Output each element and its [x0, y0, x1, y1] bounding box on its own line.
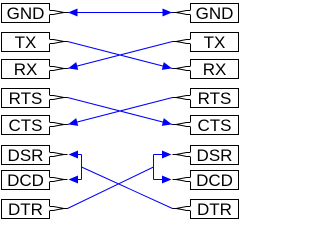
svg-text:TX: TX — [204, 33, 226, 52]
svg-text:DSR: DSR — [8, 146, 44, 165]
svg-text:RTS: RTS — [198, 89, 232, 108]
connector box L-DCD — [2, 171, 68, 190]
svg-text:TX: TX — [15, 33, 37, 52]
svg-text:GND: GND — [7, 4, 45, 23]
connector box R-GND — [173, 4, 239, 23]
svg-text:GND: GND — [196, 4, 234, 23]
connector box L-TX — [2, 33, 68, 52]
wire TX(right) to RX(left) — [68, 42, 173, 70]
connector box L-RTS — [2, 89, 68, 108]
connector box R-DTR — [173, 200, 239, 219]
connector box L-DSR — [2, 146, 68, 165]
svg-text:DCD: DCD — [7, 171, 44, 190]
svg-text:RX: RX — [14, 60, 38, 79]
wire RTS(right) to CTS(left) — [68, 98, 173, 126]
connector box L-DTR — [2, 200, 68, 219]
connector box R-DSR — [173, 146, 239, 165]
wire DTR(left) to DSR+DCD(right): bracket and arrows — [68, 151, 172, 209]
connector box R-RTS — [173, 89, 239, 108]
svg-text:DCD: DCD — [196, 171, 233, 190]
connector box L-RX — [2, 60, 68, 79]
wire TX(left) to RX(right) — [68, 42, 173, 70]
svg-text:DSR: DSR — [197, 146, 233, 165]
svg-text:RX: RX — [203, 60, 227, 79]
connector box R-TX — [173, 33, 239, 52]
connector box R-RX — [173, 60, 239, 79]
svg-text:CTS: CTS — [9, 116, 43, 135]
connector box R-CTS — [173, 116, 239, 135]
svg-text:RTS: RTS — [9, 89, 43, 108]
wire RTS(left) to CTS(right) — [68, 98, 173, 126]
wire DTR(right) to DSR+DCD(left): bracket and arrows — [69, 151, 173, 209]
connector box L-CTS — [2, 116, 68, 135]
connector box R-DCD — [173, 171, 239, 190]
connector box L-GND — [2, 4, 68, 23]
svg-text:CTS: CTS — [198, 116, 232, 135]
svg-text:DTR: DTR — [8, 200, 43, 219]
svg-text:DTR: DTR — [197, 200, 232, 219]
wire GND-GND with arrows both ends — [68, 9, 173, 17]
